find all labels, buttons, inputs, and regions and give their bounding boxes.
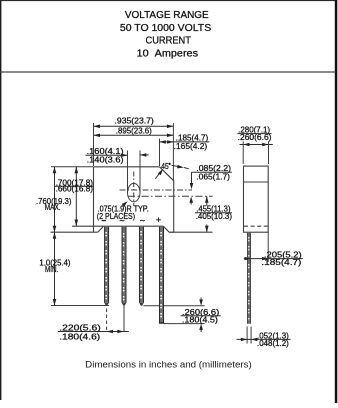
dim leader bar .085/.065: [192, 171, 232, 173]
extension lines lead thickness: [246, 327, 248, 344]
svg-text:Dimensions in inches and (mill: Dimensions in inches and (millimeters): [85, 359, 252, 369]
dim line .935: [94, 125, 174, 127]
svg-text:.935(23.7): .935(23.7): [115, 116, 155, 125]
extension line lead4 tip level right: [164, 323, 205, 325]
dim bar .160/.140: [86, 154, 128, 156]
mounting slot right side: [139, 151, 141, 193]
hole bottom center line horizontal extended right: [128, 195, 213, 197]
svg-text:.405(10.3): .405(10.3): [196, 212, 233, 221]
svg-text:.180(4.6): .180(4.6): [59, 332, 100, 341]
body right foot chamfer: [163, 226, 169, 232]
dim line .700/.660 vertical: [75, 167, 77, 226]
body top edge extension line to the left: [51, 166, 93, 168]
dim line .895: [94, 134, 174, 136]
extension line body left edge up: [93, 123, 95, 166]
body top edge: [94, 166, 160, 168]
dim line .052/.048: [237, 338, 291, 340]
extension line body right edge up: [172, 123, 174, 180]
svg-text:.660(16.8): .660(16.8): [56, 185, 94, 194]
side view lead: [247, 233, 250, 324]
svg-text:VOLTAGE RANGE: VOLTAGE RANGE: [125, 10, 209, 21]
svg-text:.048(1.2): .048(1.2): [257, 339, 289, 348]
svg-text:.180(4.5): .180(4.5): [182, 316, 218, 325]
lead 2: [122, 227, 127, 306]
svg-text:.065(1.7): .065(1.7): [196, 172, 230, 181]
mounting hole obround: [128, 183, 141, 201]
extension line side view right edge down: [267, 233, 269, 263]
fraction bar .455/.405: [195, 212, 232, 214]
svg-text:.895(23.6): .895(23.6): [116, 127, 152, 136]
dim line .205/.185: [244, 258, 303, 260]
lead 1: [104, 227, 109, 306]
side view body rectangle: [244, 166, 269, 232]
45 deg leader lower-left with arrow: [155, 171, 161, 179]
page frame left border: [0, 0, 1, 400]
header separator line: [0, 71, 336, 72]
page frame top border: [0, 0, 337, 1]
side view hidden seating line dashed: [244, 225, 268, 227]
lead 3: [139, 227, 144, 306]
svg-text:10 Amperes: 10 Amperes: [137, 48, 199, 59]
body bottom edge with left extension line for .700 dim: [72, 225, 163, 227]
45 deg leader right with arrow: [172, 165, 179, 166]
body right foot bottom: [169, 231, 174, 233]
dim .455/.405 vertical upper segment with up arrow: [206, 196, 208, 205]
svg-text:MIN.: MIN.: [45, 265, 58, 274]
dim .455/.405 vertical lower segment with down arrow: [206, 225, 208, 233]
body right edge: [173, 180, 175, 232]
extension line lead tips level to the left: [51, 305, 109, 307]
feet level extension line right for .455 dim: [169, 231, 212, 233]
svg-text:.220(5.6): .220(5.6): [59, 324, 101, 333]
polarity minus: [102, 220, 106, 221]
dim line .280/.260: [240, 144, 273, 146]
extension line chamfer start: [159, 139, 161, 167]
dim .260/.180 lower arrow: [200, 330, 202, 333]
svg-text:.185(4.7): .185(4.7): [176, 134, 209, 143]
lead 1 center dashed extension: [106, 309, 108, 332]
body left edge: [93, 167, 95, 232]
dim .260/.180 upper arrow: [200, 298, 202, 301]
dim line .185/.165: [160, 141, 210, 143]
body 45-degree chamfer top right: [160, 167, 174, 181]
lead 4 (longer): [159, 227, 164, 324]
body left foot chamfer: [98, 226, 104, 232]
dim line .220/.180: [58, 331, 129, 333]
svg-text:(2 PLACES): (2 PLACES): [97, 212, 136, 221]
mounting slot left side: [127, 151, 129, 193]
fraction bar .700/.660: [55, 185, 93, 187]
extension lines side view width: [242, 142, 244, 165]
leader vertical with down arrow to top centerline: [191, 172, 193, 184]
svg-text:.140(3.6): .140(3.6): [87, 156, 124, 165]
leader arrow to hole radius: [122, 204, 125, 206]
hole vertical center line: [133, 172, 135, 207]
fraction bar .280/.260: [237, 133, 271, 135]
hole top center line horizontal: [120, 189, 193, 191]
up arrow to bottom centerline: [190, 199, 192, 205]
page frame right border: [335, 0, 338, 403]
extension line lead3 tip level right: [144, 305, 205, 307]
svg-text:50 TO 1000 VOLTS: 50 TO 1000 VOLTS: [120, 23, 212, 34]
lead 2 center extension: [123, 306, 125, 332]
svg-text:MAX.: MAX.: [45, 203, 61, 212]
dim tail right of slot: [140, 154, 149, 156]
dim line 1.0 MIN vertical: [54, 232, 56, 305]
svg-text:~: ~: [140, 216, 145, 226]
svg-text:CURRENT: CURRENT: [146, 35, 191, 46]
svg-text:~: ~: [119, 216, 124, 226]
svg-text:+: +: [156, 215, 161, 225]
svg-text:.260(6.6): .260(6.6): [238, 133, 272, 142]
fraction bar .260/.180: [181, 315, 221, 317]
svg-text:.185(4.7): .185(4.7): [261, 258, 301, 267]
svg-text:.165(4.2): .165(4.2): [174, 142, 208, 151]
body left foot bottom + extension line to .760 dim: [51, 231, 98, 233]
side view chamfer line: [244, 181, 269, 183]
dim line .760 MAX vertical: [54, 167, 56, 232]
